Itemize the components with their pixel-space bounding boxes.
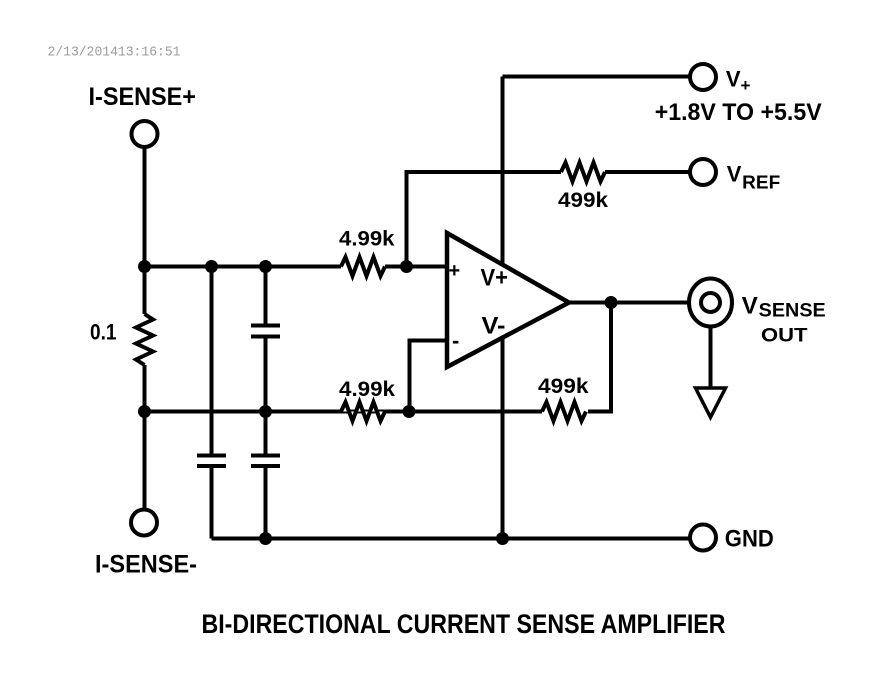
op-amp U1 xyxy=(447,233,569,367)
node junction dot output xyxy=(605,296,618,309)
wire top rail (+input) xyxy=(145,265,342,269)
wire R4 to output node xyxy=(588,303,611,412)
resistor R_shunt 0.1 xyxy=(136,267,153,412)
wire VREF feedback riser xyxy=(407,172,562,267)
label V+ terminal xyxy=(726,67,751,95)
capacitor C3 column wire bottom xyxy=(264,466,268,539)
terminal VSENSE OUT outer xyxy=(689,279,732,327)
svg-text:GND: GND xyxy=(725,526,774,553)
wire lower rail (-input) xyxy=(145,410,543,414)
label VSENSE OUT xyxy=(742,293,826,347)
capacitor C3 plates xyxy=(251,456,280,467)
terminal I-SENSE- xyxy=(131,510,157,536)
node junction dot -input xyxy=(403,405,416,418)
svg-text:499k: 499k xyxy=(538,374,589,398)
capacitor C1 column wire top xyxy=(210,267,214,456)
capacitor C2 column wire top xyxy=(264,267,268,326)
svg-text:V: V xyxy=(742,293,758,320)
svg-text:499k: 499k xyxy=(558,188,608,212)
svg-text:I-SENSE+: I-SENSE+ xyxy=(89,83,197,111)
node junction dot +input xyxy=(400,260,413,273)
svg-text:4.99k: 4.99k xyxy=(339,227,395,251)
resistor R1 4.99k (top) xyxy=(341,257,385,276)
terminal VREF xyxy=(690,159,716,185)
label VREF terminal xyxy=(727,161,781,192)
wire I-SENSE+ to node A xyxy=(143,147,147,267)
wire V+ supply line xyxy=(501,77,505,539)
wire V+ rail top xyxy=(503,75,691,79)
svg-text:OUT: OUT xyxy=(761,325,808,347)
node junction dot top C2 column xyxy=(259,260,272,273)
svg-text:V-: V- xyxy=(482,313,506,340)
resistor R2 4.99k (bottom) xyxy=(341,402,385,421)
resistor R4 499k (feedback) xyxy=(542,402,586,421)
capacitor C1 column wire bottom xyxy=(210,466,214,539)
terminal V+ xyxy=(690,64,716,90)
svg-text:V+: V+ xyxy=(481,265,509,292)
capacitor C1 plates xyxy=(197,456,226,467)
svg-text:+: + xyxy=(741,76,751,95)
node junction dot top C1 column xyxy=(205,260,218,273)
capacitor C2 plates xyxy=(251,326,280,337)
svg-text:V: V xyxy=(726,67,741,92)
node junction dot GND supply xyxy=(496,532,509,545)
wire R3 to VREF terminal xyxy=(605,170,690,174)
terminal I-SENSE+ xyxy=(132,121,158,147)
svg-text:-: - xyxy=(452,328,459,353)
ground symbol xyxy=(696,388,726,417)
svg-text:SENSE: SENSE xyxy=(759,300,826,322)
resistor R3 499k (top) xyxy=(561,163,605,182)
svg-text:4.99k: 4.99k xyxy=(339,377,395,401)
node A junction dot xyxy=(138,260,151,273)
svg-text:2/13/201413:16:51: 2/13/201413:16:51 xyxy=(48,45,181,61)
wire R1 to +input xyxy=(385,265,447,269)
capacitor C2 column wire mid xyxy=(264,337,268,456)
wire output xyxy=(569,301,689,305)
node junction dot left lower rail xyxy=(138,405,151,418)
svg-text:BI-DIRECTIONAL CURRENT SENSE A: BI-DIRECTIONAL CURRENT SENSE AMPLIFIER xyxy=(202,609,726,639)
wire node A to I-SENSE- xyxy=(143,412,147,511)
svg-text:0.1: 0.1 xyxy=(90,320,117,345)
terminal GND xyxy=(690,525,716,551)
svg-text:I-SENSE-: I-SENSE- xyxy=(95,551,197,579)
svg-text:+: + xyxy=(449,260,461,282)
terminal VSENSE OUT inner xyxy=(701,293,720,312)
svg-text:REF: REF xyxy=(742,173,780,193)
wire VSENSE OUT to ground xyxy=(709,327,713,389)
svg-text:+1.8V TO +5.5V: +1.8V TO +5.5V xyxy=(655,99,822,126)
node junction dot C2 lower rail xyxy=(259,405,272,418)
wire GND rail xyxy=(212,537,691,541)
wire -input riser xyxy=(410,341,448,412)
svg-text:V: V xyxy=(727,161,742,186)
node junction dot GND C2 xyxy=(259,532,272,545)
